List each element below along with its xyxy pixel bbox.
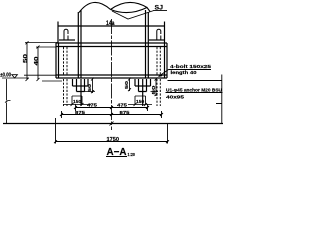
svg-text:U1-φ45 anchor M20 BSU: U1-φ45 anchor M20 BSU	[166, 88, 223, 93]
svg-text:40: 40	[34, 56, 40, 65]
svg-text:1750: 1750	[107, 137, 120, 143]
anchor bolt cap right	[157, 29, 161, 40]
svg-text:40x95: 40x95	[166, 95, 185, 100]
svg-text:50: 50	[23, 54, 29, 63]
extension level line left stub	[42, 80, 62, 82]
dim 1750 line	[54, 118, 169, 144]
anchor pocket left	[73, 79, 89, 92]
ground line center tick	[110, 122, 114, 126]
svg-text:length 40: length 40	[171, 70, 198, 75]
pedestal beam left end	[56, 43, 59, 78]
dim 150 box right	[128, 96, 152, 106]
svg-text:475: 475	[117, 102, 127, 108]
break line arc left	[79, 2, 111, 12]
svg-text:1:20: 1:20	[128, 152, 136, 157]
svg-text:875: 875	[75, 110, 85, 116]
svg-text:150: 150	[136, 99, 145, 105]
dim 50 center right	[128, 78, 131, 92]
level mark line	[2, 77, 29, 79]
title A-A	[107, 147, 136, 158]
pad plate right	[149, 39, 165, 41]
callout anchor text	[166, 88, 223, 100]
dim 50 pocket right	[151, 78, 159, 97]
dim 875 line	[60, 111, 163, 118]
pipe column left edge	[78, 10, 81, 78]
callout anchor underline	[166, 92, 223, 94]
level extension vertical with break	[5, 79, 11, 124]
break line ellipse right	[111, 2, 151, 12]
callout bolt plate leader	[159, 70, 169, 77]
extension beam bottom left	[24, 74, 56, 76]
pad plate left	[59, 39, 75, 41]
pipe column right edge	[146, 10, 149, 78]
svg-text:875: 875	[120, 110, 130, 116]
callout bolt plate underline	[169, 69, 212, 71]
pedestal beam right end	[165, 43, 168, 78]
anchor bolt hidden lines in beam right	[157, 47, 160, 75]
pedestal beam bottom flange	[56, 75, 167, 78]
svg-text:50: 50	[124, 81, 130, 89]
anchor pocket right	[135, 79, 151, 92]
svg-text:50: 50	[87, 84, 93, 92]
centerline mark	[106, 20, 115, 27]
anchor bolt hidden lines below beam left	[64, 79, 68, 106]
anchor bolt cap left	[64, 29, 68, 40]
level mark triangle	[12, 75, 18, 78]
dim 50 left vertical	[25, 41, 58, 81]
pedestal beam top flange	[56, 43, 167, 47]
svg-text:4-bolt 150x25: 4-bolt 150x25	[170, 64, 212, 69]
svg-text:SJ: SJ	[155, 5, 164, 11]
callout anchor leader	[168, 75, 223, 124]
title underline	[106, 156, 127, 158]
anchor bolt left	[80, 79, 82, 106]
saddle plate	[58, 22, 165, 44]
dim 475 line	[74, 104, 149, 111]
svg-text:475: 475	[87, 102, 97, 108]
dim 50 pocket left	[85, 78, 96, 94]
label SJ leader	[112, 11, 167, 19]
ground line	[3, 123, 223, 125]
anchor bolt hidden lines below beam right	[157, 79, 160, 106]
centerline	[111, 19, 113, 130]
callout bolt plate text	[170, 64, 212, 75]
anchor bolt hidden lines in beam left	[64, 47, 68, 75]
svg-text:50: 50	[151, 85, 157, 95]
anchor bolt right	[142, 79, 144, 106]
dim 150 box left	[63, 96, 91, 106]
dim 40 left vertical	[36, 46, 56, 82]
svg-text:150: 150	[73, 99, 82, 105]
svg-text:±0.00: ±0.00	[0, 73, 11, 79]
